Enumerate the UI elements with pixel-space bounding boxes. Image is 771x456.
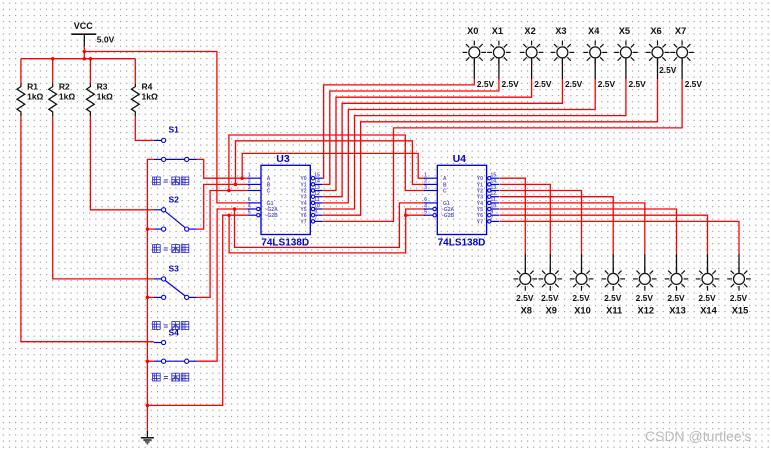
wire U3 Y2 to lamp X2 xyxy=(323,79,532,191)
wire U3 G2B to ground xyxy=(147,215,247,405)
svg-text:X10: X10 xyxy=(574,305,591,315)
svg-text:2: 2 xyxy=(424,179,427,185)
svg-text:~G2B: ~G2B xyxy=(265,213,279,219)
svg-text:2.5V: 2.5V xyxy=(502,79,520,89)
lamp X15 indicator xyxy=(734,273,745,284)
svg-text:C: C xyxy=(267,188,271,194)
svg-text:2.5V: 2.5V xyxy=(636,293,654,303)
svg-text:=: = xyxy=(164,373,169,382)
svg-text:74LS138D: 74LS138D xyxy=(261,237,309,248)
lamp X6 indicator xyxy=(652,47,663,58)
wire VCC top rail xyxy=(21,58,135,60)
wire R1 to S4 top throw xyxy=(21,116,154,341)
wire U3 Y0 to lamp X0 xyxy=(323,79,475,178)
svg-text:X12: X12 xyxy=(638,305,655,315)
wire R3 to S2 top throw xyxy=(90,116,153,209)
svg-text:VCC: VCC xyxy=(74,21,94,31)
svg-text:1kΩ: 1kΩ xyxy=(142,92,158,102)
wire U3 Y6 to lamp X6 xyxy=(323,79,658,215)
lamp X8 indicator xyxy=(520,273,531,284)
junction U3 G2B branch xyxy=(227,213,231,217)
svg-text:X2: X2 xyxy=(524,26,535,36)
wire U4 G2B stub connection xyxy=(406,214,425,216)
wire C branch to U4 C xyxy=(229,135,425,191)
svg-text:S3: S3 xyxy=(169,264,180,274)
svg-text:4: 4 xyxy=(424,203,427,209)
wire U4 Y3 to lamp X11 xyxy=(499,197,613,254)
label S1 key=space xyxy=(153,177,161,185)
wire B branch to U4 B xyxy=(236,141,425,185)
svg-text:X14: X14 xyxy=(700,305,717,315)
wire S3 pole to U3 C xyxy=(197,191,248,298)
op-amp U3 74LS138D decoder xyxy=(261,165,310,234)
wire U4 Y1 to lamp X9 xyxy=(499,184,550,254)
wire S4 pole to U3 G2A xyxy=(197,209,248,361)
svg-text:X6: X6 xyxy=(650,26,661,36)
svg-text:Y7: Y7 xyxy=(300,219,306,225)
junction net A xyxy=(240,176,244,180)
svg-text:G1: G1 xyxy=(267,201,274,207)
junction VCC rail stem xyxy=(83,57,87,61)
junction U3 G2A branch xyxy=(233,207,237,211)
svg-text:Y4: Y4 xyxy=(477,201,483,207)
svg-text:X8: X8 xyxy=(521,305,532,315)
junction ground S2 xyxy=(146,227,150,231)
svg-text:G1: G1 xyxy=(443,201,450,207)
svg-text:15: 15 xyxy=(314,173,320,179)
svg-text:3: 3 xyxy=(248,185,251,191)
svg-text:9: 9 xyxy=(490,210,493,216)
svg-text:11: 11 xyxy=(314,197,320,203)
label S2 key=space xyxy=(153,245,161,253)
wire A branch to U4 A xyxy=(242,153,425,178)
svg-text:1: 1 xyxy=(248,173,251,179)
resistor R1 1k xyxy=(20,59,22,83)
svg-text:3: 3 xyxy=(424,185,427,191)
lamp X9 indicator xyxy=(545,273,556,284)
switch S4 xyxy=(154,342,162,344)
svg-text:2.5V: 2.5V xyxy=(565,79,583,89)
lamp X11 indicator xyxy=(608,273,619,284)
junction rail R2 xyxy=(51,57,55,61)
svg-text:A: A xyxy=(267,176,271,182)
svg-text:X5: X5 xyxy=(619,26,630,36)
svg-text:X15: X15 xyxy=(732,305,749,315)
wire U4 Y0 to lamp X8 xyxy=(499,178,525,254)
svg-text:Y1: Y1 xyxy=(300,182,306,188)
label S3 key=space xyxy=(153,322,161,330)
lamp X5 indicator xyxy=(620,47,631,58)
wire U4 Y6 to lamp X14 xyxy=(499,215,707,254)
svg-text:7: 7 xyxy=(490,216,493,222)
svg-text:6: 6 xyxy=(248,197,251,203)
wire VCC stem to rail xyxy=(83,46,85,59)
svg-text:S4: S4 xyxy=(169,328,180,338)
wire U3 Y7 to lamp X7 xyxy=(323,79,682,221)
wire U4 Y4 to lamp X12 xyxy=(499,203,644,254)
junction ground S4 xyxy=(146,359,150,363)
svg-text:Y2: Y2 xyxy=(477,188,483,194)
svg-text:2.5V: 2.5V xyxy=(698,293,716,303)
svg-text:Y4: Y4 xyxy=(300,201,306,207)
svg-text:2.5V: 2.5V xyxy=(541,293,559,303)
svg-text:11: 11 xyxy=(490,197,496,203)
lamp X0 indicator xyxy=(469,47,480,58)
resistor R3 1k xyxy=(89,59,91,83)
junction U4 G2B riser xyxy=(404,213,408,217)
svg-text:2: 2 xyxy=(248,179,251,185)
wire U3 Y1 to lamp X1 xyxy=(323,79,499,184)
svg-text:1kΩ: 1kΩ xyxy=(59,92,75,102)
switch S2 xyxy=(154,209,162,211)
svg-text:9: 9 xyxy=(314,210,317,216)
lamp X10 indicator xyxy=(576,273,587,284)
svg-text:2.5V: 2.5V xyxy=(516,293,534,303)
svg-text:2.5V: 2.5V xyxy=(685,79,703,89)
svg-text:14: 14 xyxy=(490,179,496,185)
svg-text:Y5: Y5 xyxy=(300,207,306,213)
svg-text:B: B xyxy=(443,182,447,188)
ground symbol xyxy=(146,431,148,438)
lamp X12 indicator xyxy=(639,273,650,284)
svg-text:U4: U4 xyxy=(453,153,467,165)
wire S1 bottom throw to ground rail xyxy=(147,159,153,430)
svg-text:Y3: Y3 xyxy=(477,195,483,201)
svg-text:Y6: Y6 xyxy=(477,213,483,219)
svg-text:10: 10 xyxy=(490,203,496,209)
lamp X14 indicator xyxy=(702,273,713,284)
svg-text:R2: R2 xyxy=(59,82,70,92)
wire R4 to S1 top throw xyxy=(135,116,154,140)
junction net B xyxy=(234,183,238,187)
svg-text:2.5V: 2.5V xyxy=(477,79,495,89)
svg-text:2.5V: 2.5V xyxy=(667,293,685,303)
junction VCC stem branch xyxy=(83,50,87,54)
op-amp U4 74LS138D decoder xyxy=(437,165,486,234)
wire D branch to U4 G1 xyxy=(235,203,425,248)
lamp X13 indicator xyxy=(671,273,682,284)
wire ground to S2 bottom throw xyxy=(147,228,153,230)
svg-text:X13: X13 xyxy=(669,305,686,315)
wire S1 pole to U3 A xyxy=(197,159,248,178)
junction ground S3 xyxy=(146,296,150,300)
svg-text:5: 5 xyxy=(248,210,251,216)
svg-text:1: 1 xyxy=(424,173,427,179)
svg-text:=: = xyxy=(164,177,169,186)
switch S1 xyxy=(154,139,162,141)
svg-text:~G2B: ~G2B xyxy=(441,213,455,219)
svg-text:Y6: Y6 xyxy=(300,213,306,219)
wire ground to S3 bottom throw xyxy=(147,296,153,298)
wire U3 Y5 to lamp X5 xyxy=(323,79,626,209)
wire U3 Y3 to lamp X3 xyxy=(323,79,563,197)
svg-text:B: B xyxy=(267,182,271,188)
wire G2B branch to U4 G2A G2B xyxy=(229,209,425,253)
switch S3 xyxy=(154,278,162,280)
svg-text:X0: X0 xyxy=(467,26,478,36)
svg-text:S2: S2 xyxy=(169,195,180,205)
svg-text:2.5V: 2.5V xyxy=(604,293,622,303)
svg-text:Y0: Y0 xyxy=(300,176,306,182)
svg-text:13: 13 xyxy=(490,185,496,191)
lamp X7 indicator xyxy=(677,47,688,58)
svg-text:2.5V: 2.5V xyxy=(534,79,552,89)
svg-text:X7: X7 xyxy=(675,26,686,36)
svg-text:4: 4 xyxy=(248,203,251,209)
svg-text:X4: X4 xyxy=(588,26,600,36)
svg-text:2.5V: 2.5V xyxy=(659,65,677,75)
wire U3 Y4 to lamp X4 xyxy=(323,79,595,203)
wire VCC to U3 G1 xyxy=(84,52,247,203)
svg-text:Y3: Y3 xyxy=(300,195,306,201)
power VCC symbol xyxy=(71,33,96,35)
svg-text:5.0V: 5.0V xyxy=(97,34,115,44)
svg-text:R1: R1 xyxy=(27,82,38,92)
svg-text:2.5V: 2.5V xyxy=(572,293,590,303)
svg-text:S1: S1 xyxy=(169,125,180,135)
svg-text:Y5: Y5 xyxy=(477,207,483,213)
wire U4 Y5 to lamp X13 xyxy=(499,209,676,254)
label S4 key=space xyxy=(153,373,161,381)
lamp X2 indicator xyxy=(526,47,537,58)
wire R2 to S3 top throw xyxy=(53,116,154,279)
svg-text:13: 13 xyxy=(314,185,320,191)
lamp X4 indicator xyxy=(590,47,601,58)
junction net C xyxy=(227,189,231,193)
resistor R2 1k xyxy=(52,59,54,83)
wire U4 Y7 to lamp X15 xyxy=(499,221,739,254)
svg-text:5: 5 xyxy=(424,210,427,216)
wire S2 pole to U3 B xyxy=(197,184,248,229)
svg-text:Y7: Y7 xyxy=(477,219,483,225)
svg-text:R3: R3 xyxy=(97,82,108,92)
svg-text:14: 14 xyxy=(314,179,320,185)
svg-text:10: 10 xyxy=(314,203,320,209)
svg-text:~G2A: ~G2A xyxy=(441,207,455,213)
svg-text:12: 12 xyxy=(314,191,320,197)
junction ground G2B run xyxy=(146,404,150,408)
svg-text:12: 12 xyxy=(490,191,496,197)
svg-text:6: 6 xyxy=(424,197,427,203)
svg-text:X11: X11 xyxy=(606,305,622,315)
svg-text:X3: X3 xyxy=(555,26,566,36)
svg-text:1kΩ: 1kΩ xyxy=(97,92,113,102)
svg-text:R4: R4 xyxy=(142,82,153,92)
svg-text:A: A xyxy=(443,176,447,182)
svg-text:15: 15 xyxy=(490,173,496,179)
svg-text:1kΩ: 1kΩ xyxy=(27,92,43,102)
svg-text:2.5V: 2.5V xyxy=(598,79,616,89)
lamp X1 indicator xyxy=(493,47,504,58)
svg-text:74LS138D: 74LS138D xyxy=(438,237,486,248)
svg-text:2.5V: 2.5V xyxy=(730,293,748,303)
svg-text:CSDN @turtlee's: CSDN @turtlee's xyxy=(645,428,751,444)
wire U4 Y2 to lamp X10 xyxy=(499,191,581,254)
svg-text:Y2: Y2 xyxy=(300,188,306,194)
svg-text:X1: X1 xyxy=(492,26,503,36)
svg-text:2.5V: 2.5V xyxy=(629,79,647,89)
junction rail R3 xyxy=(89,57,93,61)
lamp X3 indicator xyxy=(557,47,568,58)
svg-text:~G2A: ~G2A xyxy=(265,207,279,213)
svg-text:Y1: Y1 xyxy=(477,182,483,188)
svg-text:7: 7 xyxy=(314,216,317,222)
wire ground to S4 bottom throw xyxy=(147,360,153,362)
svg-text:U3: U3 xyxy=(276,153,290,165)
svg-text:Y0: Y0 xyxy=(477,176,483,182)
resistor R4 1k xyxy=(134,59,136,83)
svg-text:=: = xyxy=(164,245,169,254)
svg-text:X9: X9 xyxy=(546,305,557,315)
svg-text:C: C xyxy=(443,188,447,194)
